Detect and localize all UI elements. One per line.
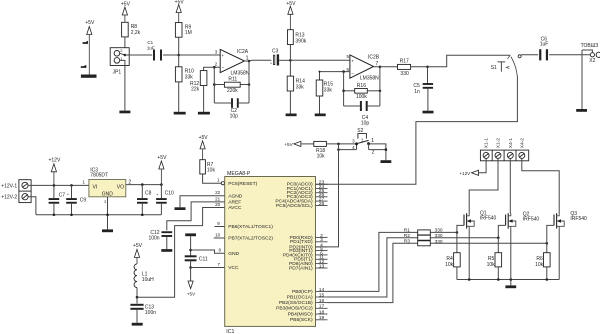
- capacitor C6 1uF: [539, 49, 541, 60]
- resistor R4 10k: [456, 232, 458, 252]
- wire R14 to ground: [289, 91, 291, 114]
- node C7 top: [53, 184, 56, 187]
- wire ground rail: [36, 214, 161, 216]
- wire PB2 pin16 to R3: [328, 243, 418, 302]
- svg-text:330: 330: [435, 239, 443, 245]
- svg-text:+12V: +12V: [459, 171, 471, 176]
- terminal +12V-2 screw: [22, 194, 28, 200]
- node Q3 gate: [546, 242, 549, 245]
- wire R8 to JP1 node: [124, 37, 126, 55]
- capacitor C5 1n: [427, 67, 429, 83]
- ground (C13): [132, 323, 143, 326]
- svg-text:PD7(AIN1): PD7(AIN1): [289, 265, 313, 271]
- inductor L1 10uH: [134, 264, 137, 288]
- svg-text:C7: C7: [59, 193, 66, 199]
- wire IC3 GND to ground: [107, 197, 109, 230]
- terminal X1-1 screw: [483, 152, 489, 158]
- svg-text:2: 2: [372, 149, 375, 155]
- capacitor C4 10p: [360, 101, 362, 111]
- node Q1 source on rail: [468, 278, 471, 281]
- svg-text:GND: GND: [228, 251, 239, 257]
- svg-text:22k: 22k: [191, 86, 200, 92]
- resistor R1 330: [418, 230, 431, 235]
- svg-text:ТОВШЗ: ТОВШЗ: [581, 43, 599, 49]
- svg-text:S1: S1: [491, 65, 497, 71]
- svg-text:R16: R16: [357, 83, 366, 89]
- IC1 MEGA8-P microcontroller box: [225, 177, 316, 327]
- resistor R13 390k: [288, 30, 294, 45]
- op-amp IC2B LM358N: [350, 55, 374, 78]
- power +5V arrow above R8: [122, 7, 127, 15]
- wire pin7 VCC: [191, 267, 225, 269]
- svg-text:X1-1: X1-1: [484, 138, 490, 149]
- capacitor C2 10p: [231, 98, 233, 108]
- svg-text:33k: 33k: [296, 84, 305, 90]
- node C9 ground: [70, 214, 73, 217]
- svg-text:33k: 33k: [324, 88, 333, 94]
- wire AVCC pin20 to L1 node: [137, 208, 225, 298]
- switch S1 right contact hook: [518, 55, 521, 58]
- capacitor C9 (polarized): [71, 185, 73, 198]
- wire feedback vertical left IC2B: [343, 72, 345, 106]
- svg-text:21: 21: [215, 196, 221, 201]
- svg-text:22: 22: [215, 190, 221, 195]
- wire feedback vertical left: [213, 67, 215, 103]
- power +5V down arrow (VCC): [188, 281, 193, 289]
- node S2 bottom left: [337, 148, 340, 151]
- svg-text:15: 15: [319, 292, 325, 298]
- power +5V arrow above R13: [288, 6, 293, 14]
- svg-text:18: 18: [319, 309, 325, 315]
- wire PB0 pin14 to R1: [328, 232, 418, 291]
- power +5V arrow (net a column): [87, 27, 92, 35]
- svg-text:10uH: 10uH: [142, 277, 154, 283]
- node bias divider: [289, 59, 292, 62]
- svg-text:C3: C3: [272, 49, 279, 55]
- wire R3 to Q3 gate node: [430, 242, 547, 244]
- node IC3 gnd on rail: [106, 214, 109, 217]
- svg-text:VCC: VCC: [228, 265, 239, 271]
- pin 9 stub XTAL1: [214, 226, 224, 228]
- wire X1-1 to +12V tap: [479, 159, 487, 173]
- capacitor C10 (polarized): [160, 185, 162, 199]
- node input bias: [177, 54, 180, 57]
- svg-text:R17: R17: [400, 59, 409, 65]
- node R11 left: [213, 83, 216, 86]
- wire Q3 gate lead: [547, 225, 554, 243]
- node C11 bottom / pin7: [190, 260, 192, 267]
- svg-text:100k: 100k: [356, 94, 367, 100]
- node R5 on rail: [497, 278, 500, 281]
- wire R16 line left: [344, 90, 355, 92]
- resistor R14 33k: [287, 76, 293, 91]
- resistor R10 33k: [178, 55, 180, 67]
- wire R15 to ground: [319, 96, 321, 114]
- node R11 right: [248, 83, 251, 86]
- wire R12 to ground: [203, 86, 205, 112]
- svg-text:IC2A: IC2A: [237, 49, 249, 55]
- wire JP1 pin1 to ground: [120, 60, 125, 110]
- svg-text:7: 7: [375, 61, 378, 67]
- svg-text:10p: 10p: [230, 113, 239, 119]
- svg-text:PC6(RESET): PC6(RESET): [228, 181, 257, 187]
- svg-text:10p: 10p: [361, 121, 370, 127]
- svg-text:+: +: [221, 54, 224, 59]
- capacitor C1 1uF: [153, 50, 155, 61]
- ground (C5): [423, 111, 434, 114]
- svg-text:100n: 100n: [148, 236, 159, 242]
- wire R9 to node: [178, 37, 180, 55]
- node IC2B pin6 feedback tap: [342, 70, 345, 73]
- wire Q2 source down: [510, 229, 512, 280]
- power +5V arrow above L1: [134, 249, 139, 257]
- node ground stem on rail: [510, 278, 513, 281]
- resistor R18 10k: [314, 141, 327, 146]
- svg-text:X4-2: X4-2: [519, 138, 525, 149]
- svg-text:+5V: +5V: [187, 291, 196, 296]
- connector X2 circle 1: [590, 53, 594, 57]
- node JP1 output: [124, 54, 127, 57]
- svg-text:220k: 220k: [227, 88, 238, 94]
- terminal block X1/X4 outline: [480, 150, 528, 161]
- node C9 top: [70, 184, 73, 187]
- svg-text:+12V: +12V: [48, 157, 60, 163]
- capacitor C11 100n: [185, 255, 197, 257]
- terminal X1-2 screw: [495, 152, 501, 158]
- svg-text:10k: 10k: [317, 153, 326, 159]
- wire S2 pins 1-2 to ground: [369, 144, 386, 161]
- ground (GND pin8 column): [185, 233, 196, 236]
- capacitor C12 100n: [161, 231, 172, 233]
- svg-text:PB5(SCK): PB5(SCK): [290, 317, 313, 323]
- connector JP1 box: [110, 48, 129, 66]
- power +12V tap arrow: [472, 170, 479, 175]
- wire R11 left segment: [214, 84, 224, 86]
- ground (JP1): [119, 111, 130, 114]
- wire C13 to ground: [136, 310, 138, 323]
- svg-text:16: 16: [319, 298, 325, 304]
- node C11 top / pin8: [189, 249, 192, 252]
- wire R10 to ground: [178, 82, 180, 112]
- svg-text:+5V: +5V: [121, 1, 131, 7]
- wire Q2 gate lead: [498, 225, 505, 237]
- node C8 top: [141, 183, 144, 186]
- wire bias node to IC2B pin5: [290, 59, 350, 61]
- resistor R8 2,2k: [122, 22, 129, 37]
- svg-text:AREF: AREF: [228, 200, 241, 206]
- capacitor C7 100n: [53, 185, 55, 198]
- svg-text:PB2(SS/OC1B): PB2(SS/OC1B): [279, 300, 313, 306]
- svg-text:10k: 10k: [445, 262, 454, 268]
- svg-text:C9: C9: [80, 197, 87, 203]
- svg-text:PC5(ADC5/SCL): PC5(ADC5/SCL): [276, 203, 313, 209]
- net label a (lower tick): [81, 65, 87, 68]
- resistor R6 10k: [546, 243, 548, 252]
- wire R13 to node: [289, 45, 291, 61]
- reset inversion circle: [221, 182, 224, 185]
- svg-text:PB4(MISO): PB4(MISO): [288, 311, 313, 317]
- terminal X4-1 screw: [507, 152, 513, 158]
- svg-text:+5V: +5V: [157, 155, 167, 161]
- svg-text:3: 3: [104, 200, 106, 204]
- svg-text:+5V: +5V: [175, 0, 185, 5]
- wire C3 to bias node: [279, 59, 290, 61]
- svg-text:20: 20: [215, 202, 221, 207]
- svg-text:X4-1: X4-1: [508, 138, 514, 149]
- wire R2 to Q2 gate node: [430, 237, 498, 239]
- ground (net a column, heavy bar): [81, 75, 97, 78]
- wire X1-2 to Q1 drain: [469, 159, 498, 214]
- node Q2 gate: [497, 236, 500, 239]
- node S2 right: [385, 148, 388, 151]
- ground (R10): [174, 112, 186, 115]
- node R16 left: [342, 90, 345, 93]
- node IC2A output: [248, 60, 251, 63]
- net label a (upper tick): [83, 41, 89, 44]
- svg-text:1uF: 1uF: [540, 42, 549, 48]
- svg-text:C1: C1: [147, 40, 153, 45]
- svg-text:10k: 10k: [487, 262, 496, 268]
- svg-text:X2: X2: [589, 58, 595, 64]
- wire R18 to S2 node: [326, 143, 356, 145]
- svg-text:X1-2: X1-2: [496, 138, 502, 149]
- wire X4-2 to Q3 drain: [522, 159, 559, 214]
- wire source rail: [457, 279, 559, 281]
- svg-text:1: 1: [371, 138, 374, 144]
- svg-text:13: 13: [319, 263, 325, 269]
- ground (R12): [198, 112, 210, 115]
- svg-text:PB7(XTAL2/TOSC2): PB7(XTAL2/TOSC2): [228, 236, 273, 242]
- wire node to R14: [289, 60, 291, 76]
- svg-text:7805DT: 7805DT: [90, 173, 108, 179]
- resistor R17 330: [398, 64, 411, 69]
- switch S1 left contact tick: [508, 55, 511, 59]
- wire Q3 source down: [558, 229, 560, 280]
- svg-text:IRF540: IRF540: [480, 216, 497, 222]
- node IC2B output: [379, 66, 382, 69]
- svg-text:1M: 1M: [185, 30, 192, 36]
- resistor R11 220k: [224, 82, 240, 87]
- wire terminal2 to ground rail: [28, 197, 36, 215]
- wire C1 to R9/R10 node: [163, 54, 179, 56]
- wire X4-1 to Q2 drain: [509, 159, 511, 214]
- wire pin8 GND: [191, 250, 225, 253]
- svg-text:AVCC: AVCC: [228, 205, 242, 211]
- wire +12V input rail: [28, 184, 89, 186]
- power +5V arrow above R7: [200, 141, 205, 149]
- wire +5V to R18: [301, 143, 314, 145]
- svg-text:390k: 390k: [295, 38, 306, 44]
- wire C2 line: [214, 102, 249, 104]
- svg-text:3: 3: [320, 237, 323, 243]
- wire AGND pin22 to ground: [180, 196, 225, 208]
- wire C5 node to switch S1: [428, 55, 511, 67]
- wire IC2A output to C3: [245, 59, 272, 62]
- resistor R5 10k: [497, 238, 499, 253]
- svg-text:2,2k: 2,2k: [131, 30, 141, 36]
- switch S1 actuator arrow: [506, 66, 509, 68]
- power +12V arrow: [51, 164, 56, 172]
- svg-text:+5V: +5V: [286, 1, 296, 7]
- transistor Q1 IRF540: [464, 213, 467, 228]
- svg-text:19: 19: [319, 315, 325, 321]
- ground (source rail): [505, 285, 516, 288]
- resistor R7 10k: [200, 160, 206, 174]
- svg-text:PD1(TXD): PD1(TXD): [290, 239, 313, 245]
- wire C6 to connector X2: [549, 54, 590, 56]
- svg-text:MEGA8-P: MEGA8-P: [227, 171, 251, 177]
- svg-text:1uF: 1uF: [147, 45, 155, 50]
- svg-text:330: 330: [435, 233, 443, 239]
- wire feedback vertical right IC2B: [379, 67, 381, 106]
- JP1 pin 1 circle: [114, 58, 120, 64]
- ground (AGND): [175, 207, 186, 210]
- svg-text:IC1: IC1: [226, 329, 234, 334]
- svg-text:LM358N: LM358N: [360, 76, 379, 82]
- JP1 pin 2 circle: [114, 51, 120, 57]
- node R16 right: [379, 90, 382, 93]
- node L1/C13/AVCC: [136, 296, 139, 299]
- resistor R15 33k: [319, 72, 321, 80]
- wire R16 line right: [367, 90, 380, 92]
- wire feedback vertical right to output: [248, 61, 250, 103]
- wire node to IC2A pin3: [179, 54, 221, 56]
- capacitor C13 100n: [136, 297, 138, 303]
- svg-text:+12V-2: +12V-2: [1, 195, 17, 201]
- svg-text:IRF540: IRF540: [523, 217, 540, 223]
- svg-text:S2: S2: [357, 128, 363, 134]
- svg-text:+5V: +5V: [85, 20, 95, 26]
- node S2 top left: [337, 143, 340, 146]
- resistor R12 22k: [200, 71, 207, 86]
- wire R17 to C5 node: [411, 66, 428, 68]
- node IC2A pin2 feedback tap: [213, 66, 216, 69]
- wire C4 line: [344, 105, 380, 107]
- svg-text:14: 14: [319, 287, 325, 293]
- svg-text:+5V: +5V: [284, 142, 293, 147]
- wire S1 lower contact to MCU PC0: [316, 76, 518, 184]
- svg-text:+5V: +5V: [133, 243, 143, 249]
- svg-text:100n: 100n: [145, 310, 156, 316]
- power +5V arrow above R9: [176, 5, 181, 13]
- ground (C12): [161, 249, 172, 252]
- wire IC2B output to R17: [374, 66, 398, 68]
- wire VCC node to +5V down arrow: [190, 268, 192, 282]
- wire ground bar to C11 top: [190, 236, 192, 256]
- svg-text:GND: GND: [102, 192, 114, 198]
- ground (R14): [286, 114, 297, 117]
- svg-text:−: −: [351, 72, 354, 77]
- svg-text:PB6(XTAL1/TOSC1): PB6(XTAL1/TOSC1): [228, 224, 273, 230]
- resistor R3 330: [418, 241, 431, 246]
- svg-text:R11: R11: [228, 77, 237, 83]
- wire Q1 gate lead: [457, 225, 464, 232]
- svg-text:33k: 33k: [185, 74, 194, 80]
- svg-text:1n: 1n: [414, 89, 420, 95]
- wire +5V output rail: [126, 184, 162, 186]
- svg-text:PB3(MOSI/OC2): PB3(MOSI/OC2): [276, 306, 313, 312]
- svg-text:PB1(OC1A): PB1(OC1A): [287, 294, 313, 300]
- regulator IC3 7805DT box: [89, 180, 126, 197]
- wire S2 pin4 line: [339, 144, 357, 150]
- resistor R2 330: [418, 235, 431, 240]
- wire rail to ground: [510, 280, 512, 286]
- capacitor C8 100n: [141, 185, 143, 199]
- wire JP1 to C1: [125, 54, 152, 56]
- svg-text:17: 17: [319, 304, 325, 310]
- svg-text:+5V: +5V: [199, 135, 209, 141]
- wire R12 top to IC2A pin2: [204, 67, 221, 70]
- svg-text:+: +: [351, 59, 354, 64]
- node C5 tap: [426, 66, 429, 69]
- pin 10 stub XTAL2: [214, 237, 225, 239]
- ground (IC3): [102, 229, 113, 232]
- svg-text:330: 330: [400, 71, 409, 77]
- svg-text:10: 10: [215, 232, 221, 237]
- svg-text:C8: C8: [145, 191, 152, 197]
- svg-text:28: 28: [319, 201, 325, 207]
- IC1 right pin numbers and stubs: [319, 180, 325, 322]
- svg-text:−: −: [222, 66, 225, 71]
- connector +12V terminal block: [19, 180, 31, 203]
- svg-text:C10: C10: [165, 191, 174, 197]
- ground (S2): [381, 160, 392, 163]
- svg-text:JP1: JP1: [113, 70, 122, 76]
- transistor Q3 IRF540: [554, 213, 557, 228]
- wire IC2B pin6 line: [320, 71, 350, 73]
- svg-text:IRF540: IRF540: [570, 216, 587, 222]
- ground (R15): [315, 114, 326, 117]
- wire X2 sleeve to ground: [582, 50, 592, 109]
- svg-text:VI: VI: [93, 184, 98, 190]
- node Q1 gate: [456, 231, 459, 234]
- svg-text:+12V-1: +12V-1: [1, 183, 17, 189]
- ground (X2): [576, 109, 587, 112]
- wire C12 to ground: [166, 237, 168, 249]
- resistor R9 1M: [175, 23, 182, 38]
- op-amp IC2A LM358N: [220, 49, 244, 72]
- node R6 on rail: [546, 278, 549, 281]
- wire R11 right segment: [240, 84, 249, 86]
- svg-text:VO: VO: [117, 184, 124, 190]
- svg-text:C11: C11: [199, 256, 208, 262]
- svg-text:R2: R2: [404, 233, 410, 239]
- svg-text:PB0(ICP): PB0(ICP): [292, 289, 313, 295]
- terminal X4-2 screw: [519, 152, 525, 158]
- wire S1 to C6: [521, 54, 538, 56]
- node C7 ground: [53, 214, 56, 217]
- svg-text:R3: R3: [404, 239, 410, 245]
- wire S2 node to MCU INT0: [316, 144, 339, 247]
- node R15 top corner: [319, 71, 321, 73]
- capacitor C3 (polarized): [274, 55, 275, 64]
- power +5V arrow (regulator output): [159, 161, 164, 169]
- switch S1 actuator: [498, 62, 506, 72]
- wire AREF pin21 to C12: [167, 202, 225, 231]
- svg-text:R1: R1: [404, 227, 410, 233]
- svg-text:10k: 10k: [207, 168, 216, 174]
- wire R1 to Q1 gate node: [430, 231, 457, 233]
- terminal +12V-1 screw: [22, 182, 28, 188]
- svg-text:10k: 10k: [535, 262, 544, 268]
- switch S1 moving arm: [511, 57, 517, 76]
- resistor R16 100k: [355, 88, 368, 93]
- wire L1 to node: [136, 288, 138, 298]
- wire PB1 pin15 to R2: [328, 238, 418, 297]
- transistor Q2 IRF540: [506, 213, 509, 228]
- IC1 right pin labels: [275, 182, 313, 324]
- wire C5 to ground: [427, 89, 429, 111]
